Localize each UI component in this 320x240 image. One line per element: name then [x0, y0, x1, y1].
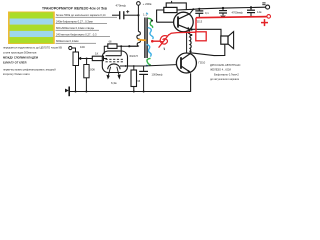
- top supply rail: [199, 7, 265, 9]
- node rail C5 junction: [250, 6, 252, 8]
- wire anode to primary bottom: [121, 45, 138, 47]
- svg-text:БУМАГУ ОТ КЛЕЯ: БУМАГУ ОТ КЛЕЯ: [3, 60, 26, 64]
- winding table row 1 text: [56, 13, 118, 17]
- svg-text:вторичку ближе к вате: вторичку ближе к вате: [3, 72, 30, 76]
- winding table colored block: [8, 12, 55, 45]
- node cathode junction: [125, 65, 127, 67]
- wire primary bottom: [129, 45, 138, 47]
- svg-text:600витков 0,14мм: 600витков 0,14мм: [56, 39, 79, 43]
- wire wiper to grid resistor: [81, 58, 93, 60]
- svg-text:более 500в до напольного карка: более 500в до напольного каркаса 0,14: [56, 13, 106, 17]
- capacitor C2 1000мкф cathode bypass: [139, 66, 163, 92]
- winding table row 2 text: [56, 19, 108, 23]
- red supply rail: [196, 17, 267, 18]
- wire speaker bottom: [191, 44, 225, 55]
- red terminal plus: [261, 15, 271, 27]
- wire pot bottom to ground rail: [75, 66, 77, 92]
- capacitor C4 4700мкф: [219, 8, 244, 17]
- resistor R2 100K: [84, 59, 96, 92]
- potentiometer wiper arrow: [79, 57, 82, 59]
- stray mark: [163, 48, 165, 50]
- terminal minus: [262, 3, 269, 9]
- node cap primary junction: [137, 14, 139, 16]
- node rail C4 junction: [222, 7, 224, 9]
- resistor R5 68 screen: [104, 40, 121, 53]
- node rail cap junction: [143, 91, 145, 93]
- svg-text:6,3в: 6,3в: [111, 81, 117, 85]
- svg-text:100К: 100К: [89, 68, 96, 72]
- transformer lower green mark: [147, 58, 151, 65]
- red wire rail drop: [195, 18, 197, 32]
- transformer T primary winding: [137, 32, 141, 47]
- svg-text:4700мкф: 4700мкф: [232, 11, 244, 15]
- node rail 68 junction: [133, 91, 135, 93]
- svg-text:14в: 14в: [257, 10, 262, 14]
- svg-text:10К: 10К: [80, 45, 85, 49]
- svg-text:первичку можно рефинансировать: первичку можно рефинансировать анодной: [3, 67, 56, 71]
- resistor R6 bias: [164, 7, 177, 12]
- left note paragraph: [3, 46, 62, 77]
- blue tick mark: [146, 13, 148, 15]
- node rail 100K junction: [85, 91, 87, 93]
- ground rail wire: [69, 73, 190, 91]
- ground symbol: [65, 87, 69, 97]
- svg-text:ЖЕЛЕЗО 4...6СМ: ЖЕЛЕЗО 4...6СМ: [210, 68, 231, 72]
- red element: [159, 34, 169, 47]
- svg-text:1К: 1К: [95, 52, 99, 56]
- transformer core: [145, 18, 147, 59]
- svg-text:до катушечного каркаса: до катушечного каркаса: [210, 78, 239, 81]
- input terminal: [69, 46, 72, 49]
- potentiometer R1 10K: [73, 45, 85, 65]
- svg-text:передается индуктивность до ЦЕ: передается индуктивность до ЦЕЛОГО часов…: [3, 46, 62, 50]
- wire base line: [157, 21, 174, 23]
- jumper tick: [171, 1, 173, 3]
- resistor R4 cathode 68: [131, 66, 141, 92]
- transformer orange mark: [138, 39, 147, 42]
- wire speaker top: [191, 29, 221, 36]
- wire input to potentiometer: [72, 48, 76, 52]
- node anode junction: [120, 45, 122, 47]
- tube grid dashed: [106, 59, 124, 62]
- red box: [196, 32, 206, 41]
- svg-text:470пкф: 470пкф: [116, 3, 127, 7]
- svg-text:ТРАНСФОРМАТОР ЖЕЛЕЗО 4см от 5к: ТРАНСФОРМАТОР ЖЕЛЕЗО 4см от 5кв: [42, 7, 107, 11]
- svg-text:ДРОССЕЛЬ АВТОТРАНС: ДРОССЕЛЬ АВТОТРАНС: [210, 63, 241, 67]
- resistor R3 1K grid stopper: [92, 52, 107, 61]
- node collector rail junction: [192, 8, 194, 10]
- svg-text:Бифилярно 0,7мм×2: Бифилярно 0,7мм×2: [214, 72, 239, 76]
- tube anode plate: [106, 46, 122, 55]
- svg-text:0,1: 0,1: [205, 11, 209, 15]
- svg-text:П210: П210: [199, 61, 206, 65]
- transformer secondary green mark: [148, 18, 153, 28]
- cathode node wire: [120, 65, 144, 67]
- wire supply to primary: [137, 5, 139, 31]
- winding table row 4 text: [56, 32, 111, 36]
- svg-text:1000мкф: 1000мкф: [152, 72, 164, 76]
- node wiper junction: [86, 58, 88, 60]
- svg-text:6Ж1П: 6Ж1П: [130, 54, 138, 58]
- node primary bottom junction: [128, 45, 130, 47]
- capacitor C1 470пкф: [112, 3, 138, 19]
- node rail C3 junction: [198, 8, 200, 10]
- node emitter Q1 junction: [191, 28, 193, 30]
- wire secondary to base rail: [157, 10, 164, 22]
- transformer secondary blue mark: [148, 28, 154, 39]
- node cathode R junction: [133, 65, 135, 67]
- svg-text:240 витков бифилярно 0,27...0,: 240 витков бифилярно 0,27...0,3: [56, 32, 97, 36]
- winding table row 3 text: [56, 26, 100, 30]
- svg-text:600+600витков 0,14мм отводы: 600+600витков 0,14мм отводы: [56, 26, 94, 30]
- node secondary top: [151, 20, 153, 22]
- wire bias jumper loop: [166, 3, 186, 9]
- red wire to element: [169, 32, 196, 35]
- choke note text: [210, 63, 241, 81]
- node rail pot junction: [75, 91, 77, 93]
- choke L1: [187, 30, 193, 53]
- svg-text:+ 200в: + 200в: [143, 2, 152, 6]
- transformer lower blue mark: [147, 44, 152, 56]
- capacitor C3 0,1: [195, 9, 209, 18]
- svg-text:МЕЖДУ СЛОЯМИ КЛАДЕМ: МЕЖДУ СЛОЯМИ КЛАДЕМ: [3, 56, 39, 60]
- speaker: [221, 32, 234, 49]
- vacuum tube V1 envelope: [102, 51, 127, 73]
- svg-text:240в бифилярно 0,27...0,3мм: 240в бифилярно 0,27...0,3мм: [56, 19, 93, 23]
- winding table row 5 text: [56, 39, 97, 43]
- transistor Q1 П213: [174, 9, 203, 32]
- svg-text:слоев прокладки 500витков: слоев прокладки 500витков: [3, 50, 37, 54]
- red wire element lead: [152, 40, 160, 42]
- transistor Q2 П210: [176, 51, 205, 73]
- tube cathode arc: [108, 64, 120, 69]
- red node blob: [151, 40, 154, 43]
- wire resistor to collector rail: [177, 9, 199, 10]
- wire base Q2: [144, 65, 177, 66]
- tube heater arrows: [107, 67, 120, 79]
- capacitor C5: [247, 8, 262, 18]
- blue dot mark: [146, 65, 148, 67]
- terminal +200в: [137, 2, 141, 6]
